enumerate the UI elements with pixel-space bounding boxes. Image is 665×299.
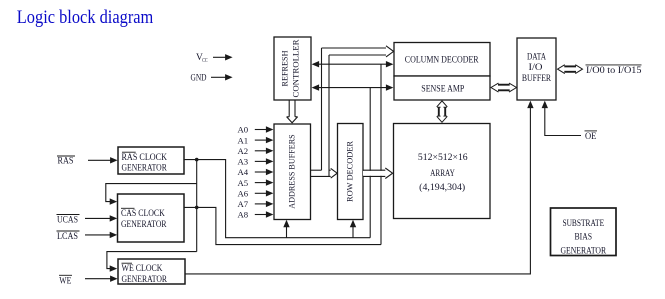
svg-text:LCAS: LCAS	[57, 231, 78, 241]
svg-text:I/O: I/O	[529, 62, 544, 72]
svg-text:A4: A4	[238, 167, 249, 177]
wire RAS input arrow	[88, 159, 112, 161]
sense amp box	[394, 76, 490, 100]
hollow double arrow sense amp to data buffer	[491, 83, 517, 92]
bus branch up to column decoder	[322, 48, 387, 176]
bus row decoder to array	[363, 171, 386, 176]
bus address buffers to row decoder	[311, 170, 332, 176]
wire GND arrow	[211, 76, 226, 78]
svg-text:WE CLOCK: WE CLOCK	[122, 263, 163, 273]
svg-text:SUBSTRATE: SUBSTRATE	[562, 219, 604, 229]
svg-text:A6: A6	[238, 189, 249, 199]
memory array box	[394, 124, 491, 219]
address buffers box	[274, 124, 311, 220]
svg-text:GENERATOR: GENERATOR	[122, 274, 168, 284]
wire stub up to row decoder bottom	[352, 224, 354, 238]
wire UCAS input arrow	[85, 217, 111, 219]
wires A0-A8 input arrows	[255, 130, 268, 215]
wire RAS clock output chain	[184, 160, 370, 238]
RAS clock generator box	[118, 147, 184, 174]
svg-text:CONTROLLER: CONTROLLER	[291, 39, 301, 97]
wire CAS clock output chain	[184, 207, 381, 244]
svg-text:GND: GND	[191, 72, 207, 82]
svg-text:GENERATOR: GENERATOR	[122, 163, 167, 173]
wire vertical riser to column decoder arrow	[380, 64, 382, 244]
svg-text:COLUMN DECODER: COLUMN DECODER	[405, 56, 479, 66]
wire refresh to column decoder double arrow	[313, 63, 392, 65]
svg-text:I/O0 to I/O15: I/O0 to I/O15	[586, 65, 642, 75]
svg-text:ARRAY: ARRAY	[430, 168, 455, 178]
svg-text:A7: A7	[238, 199, 249, 209]
svg-text:GENERATOR: GENERATOR	[561, 246, 607, 256]
wire vertical riser to sense amp arrow	[369, 88, 371, 238]
svg-text:RAS: RAS	[58, 156, 74, 166]
svg-text:BIAS: BIAS	[575, 233, 593, 243]
data I/O buffer box	[517, 38, 556, 100]
svg-text:A1: A1	[238, 135, 249, 145]
svg-text:A5: A5	[238, 178, 249, 188]
svg-text:REFRESH: REFRESH	[280, 50, 290, 87]
svg-text:A8: A8	[238, 210, 249, 220]
svg-text:A0: A0	[238, 125, 249, 135]
wire VCC arrow	[213, 56, 226, 58]
CAS clock generator box	[118, 194, 185, 242]
refresh controller U-REF box	[274, 37, 311, 100]
column decoder box	[394, 43, 490, 77]
svg-text:SENSE AMP: SENSE AMP	[421, 85, 464, 95]
wire OE to buffer	[545, 103, 581, 136]
svg-text:RAS CLOCK: RAS CLOCK	[122, 152, 168, 162]
svg-text:BUFFER: BUFFER	[522, 73, 551, 83]
svg-text:A3: A3	[238, 157, 249, 167]
svg-text:WE: WE	[59, 275, 71, 285]
hollow double arrow sense amp to array vertical	[437, 101, 448, 122]
svg-text:CC: CC	[202, 57, 207, 64]
svg-text:UCAS: UCAS	[57, 215, 78, 225]
wire RAS chain down to CAS and WE	[196, 160, 198, 252]
WE clock generator box	[118, 259, 185, 284]
wire branch to CAS clock input	[106, 184, 197, 202]
wire branch to WE clock input	[107, 252, 197, 269]
svg-text:A2: A2	[238, 146, 249, 156]
wire refresh to sense amp double arrow	[313, 87, 392, 89]
substrate bias generator box	[551, 208, 617, 256]
svg-text:ADDRESS BUFFERS: ADDRESS BUFFERS	[287, 134, 297, 208]
svg-text:Logic block diagram: Logic block diagram	[17, 7, 154, 28]
svg-text:ROW DECODER: ROW DECODER	[345, 141, 355, 202]
wire WE clock output to data buffer	[185, 103, 530, 274]
hollow double arrow data buffer to I/O pins	[558, 65, 583, 74]
row decoder box	[338, 124, 364, 220]
svg-text:CAS CLOCK: CAS CLOCK	[121, 208, 165, 218]
svg-text:OE: OE	[585, 131, 597, 141]
wire LCAS input arrow	[85, 234, 111, 236]
svg-text:DATA: DATA	[527, 52, 546, 62]
node junction dot RAS output	[195, 158, 199, 162]
wire WE input arrow	[85, 278, 112, 280]
svg-text:512×512×16: 512×512×16	[418, 152, 468, 162]
svg-text:(4,194,304): (4,194,304)	[419, 182, 465, 192]
hollow arrow refresh controller down to address buffers	[287, 100, 298, 123]
wire stub up to address buffers bottom	[286, 224, 288, 238]
svg-text:GENERATOR: GENERATOR	[121, 219, 167, 229]
node junction dot CAS output	[195, 206, 199, 210]
